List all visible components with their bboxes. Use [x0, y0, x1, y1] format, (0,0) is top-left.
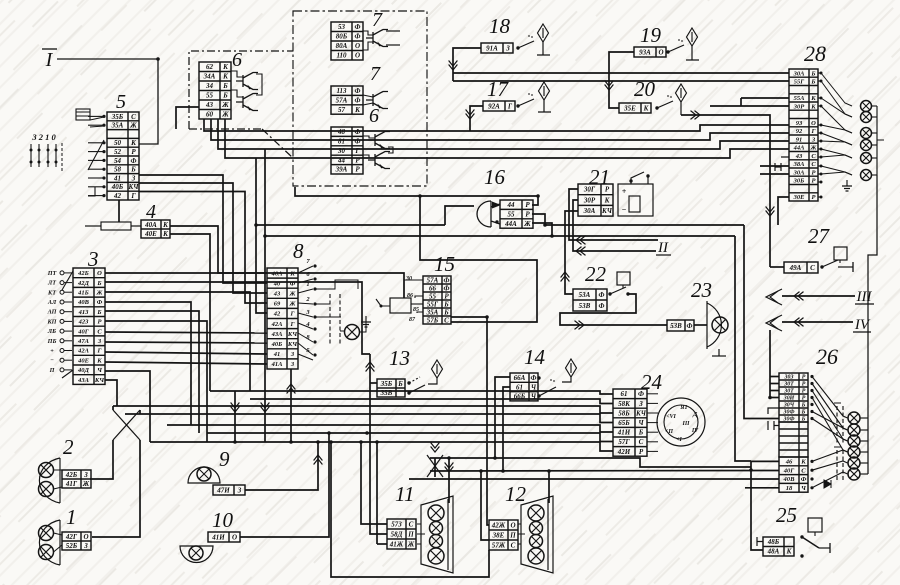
svg-text:12: 12	[505, 482, 527, 506]
long wire 91 to unit 28	[218, 119, 789, 149]
svg-text:42Г: 42Г	[65, 533, 78, 541]
svg-text:86: 86	[407, 293, 413, 299]
svg-text:Б: Б	[222, 92, 228, 100]
wire 3 row9 to switch 8	[105, 352, 267, 354]
svg-text:Б: Б	[222, 82, 228, 90]
svg-text:КЧ: КЧ	[601, 207, 613, 215]
twist symbol IV	[766, 315, 782, 331]
svg-text:К: К	[96, 357, 102, 364]
switch 25 icon	[808, 518, 822, 532]
lamp symbol of switch 19	[687, 28, 698, 46]
junction dot 20	[547, 469, 551, 473]
bus wire to 24 row 61	[210, 391, 613, 394]
lamp HL2 of panel 26	[848, 424, 860, 436]
svg-text:Ж: Ж	[289, 301, 297, 308]
wire to cluster 12 row3	[481, 471, 489, 540]
svg-text:24: 24	[641, 370, 663, 394]
lamp HL2 of panel 28	[861, 112, 872, 123]
lamp 9 bulb	[197, 467, 211, 481]
wire lamp 2 up	[90, 440, 113, 479]
arrow up on wire 13	[366, 362, 375, 372]
twist symbol III	[766, 289, 782, 305]
long wire 40В	[409, 478, 779, 480]
svg-text:35Е: 35Е	[623, 104, 636, 112]
junction dot 4	[749, 468, 753, 472]
svg-text:О: О	[97, 270, 102, 277]
svg-text:93: 93	[796, 120, 803, 127]
svg-text:III: III	[681, 421, 690, 427]
arrow harness II upper	[576, 236, 586, 245]
wire relay 15 output down	[451, 317, 489, 525]
svg-text:7: 7	[372, 9, 383, 31]
svg-text:О: О	[355, 42, 360, 50]
svg-text:30: 30	[405, 276, 412, 282]
svg-text:41И: 41И	[211, 533, 225, 541]
svg-text:АП: АП	[47, 309, 57, 316]
svg-text:С: С	[811, 161, 816, 168]
svg-text:8: 8	[293, 239, 304, 263]
junction dot 13	[365, 431, 369, 435]
svg-text:55Г: 55Г	[794, 79, 805, 86]
svg-text:69: 69	[274, 301, 281, 308]
wire 3 row11 down	[105, 371, 150, 442]
svg-text:П: П	[407, 530, 414, 538]
transistor VT1 of unit 6b	[368, 132, 390, 149]
svg-text:Ф: Ф	[97, 299, 103, 306]
svg-text:30Т: 30Т	[783, 389, 794, 395]
svg-text:61: 61	[516, 383, 523, 391]
lamp HL3 of panel 26	[848, 435, 860, 447]
svg-text:43: 43	[205, 101, 214, 109]
svg-text:˂VI: ˂VI	[666, 414, 676, 420]
svg-text:18: 18	[489, 14, 511, 38]
svg-text:35А: 35А	[426, 308, 439, 316]
wire panel 28 bottom exit	[778, 197, 789, 225]
svg-text:41Ж: 41Ж	[389, 540, 404, 548]
svg-text:40Б: 40Б	[111, 183, 124, 191]
svg-text:КЧ: КЧ	[287, 331, 298, 338]
cluster 11 lamp3	[430, 535, 443, 548]
svg-text:З: З	[83, 471, 88, 479]
connector mark left of unit 25	[757, 537, 763, 546]
svg-text:53В: 53В	[670, 322, 682, 330]
svg-text:С: С	[409, 520, 414, 528]
svg-text:55: 55	[508, 211, 516, 219]
svg-text:Ф: Ф	[355, 33, 361, 41]
cluster 12 housing	[521, 496, 553, 573]
switch 3 arm	[62, 271, 73, 290]
svg-text:44А: 44А	[793, 145, 806, 152]
svg-text:42И: 42И	[617, 448, 631, 456]
wire switch 14 row1 down	[495, 377, 510, 458]
fuse F1	[101, 222, 131, 230]
svg-text:66А: 66А	[514, 374, 526, 382]
svg-text:6: 6	[232, 49, 242, 71]
svg-text:С: С	[97, 328, 102, 335]
wire harness IV	[782, 321, 853, 323]
svg-text:7: 7	[370, 63, 381, 85]
regulator 6 boundary chain	[189, 51, 293, 129]
svg-text:66: 66	[429, 284, 437, 292]
svg-text:35А: 35А	[111, 122, 124, 130]
svg-text:Г: Г	[130, 192, 136, 200]
switch 14 stem	[562, 377, 571, 382]
socket 24 connector	[613, 389, 647, 456]
cluster 11 lamp2	[430, 522, 443, 535]
lamp HL3 of panel 28	[861, 128, 872, 139]
svg-text:40В: 40В	[77, 299, 90, 306]
svg-text:55Г: 55Г	[427, 300, 439, 308]
svg-text:10: 10	[212, 508, 234, 532]
svg-text:С: С	[810, 264, 815, 272]
wire drop B to panel 26	[735, 236, 751, 461]
junction dot 18	[493, 456, 497, 460]
svg-text:87: 87	[409, 317, 416, 323]
svg-text:26: 26	[816, 344, 838, 369]
svg-text:40Г: 40Г	[783, 467, 796, 474]
wire 3 row5 down	[105, 311, 199, 433]
svg-text:Ж: Ж	[289, 291, 297, 298]
bus wire to 24 row 42И	[150, 442, 613, 451]
svg-text:К: К	[800, 459, 806, 466]
svg-text:З: З	[505, 44, 510, 52]
junction dot 15	[375, 440, 379, 444]
headlamp 2 bulb leads	[54, 469, 63, 471]
wire switch 13 up arrow	[370, 354, 387, 534]
svg-text:60: 60	[206, 111, 214, 119]
svg-text:Ф: Ф	[531, 374, 537, 382]
svg-text:30З: 30З	[784, 375, 794, 381]
long wire B to the right	[265, 149, 735, 236]
svg-text:58К: 58К	[618, 400, 631, 408]
wire cluster 11 row3	[376, 442, 378, 544]
cluster 11 lamp1	[428, 505, 444, 521]
svg-text:Р: Р	[802, 382, 806, 388]
svg-text:55: 55	[206, 92, 214, 100]
lamp symbol of switch 18	[538, 24, 549, 42]
svg-text:Г: Г	[97, 348, 102, 355]
wire cross up left	[112, 406, 114, 410]
svg-text:Б: Б	[443, 300, 449, 308]
transistor VT1 of unit 6	[236, 73, 258, 90]
svg-text:КЧ: КЧ	[94, 377, 105, 384]
arrow harness II lower	[576, 247, 586, 256]
switch arms and lamp wiring of panel 28	[820, 72, 823, 75]
svg-text:Ф: Ф	[599, 302, 605, 310]
svg-text:З: З	[638, 400, 643, 408]
wire 3 row4 down	[105, 302, 191, 425]
wire lamp 10	[240, 433, 329, 537]
svg-text:13: 13	[389, 346, 410, 370]
svg-text:Б: Б	[443, 308, 449, 316]
svg-text:30Т: 30Т	[783, 382, 794, 388]
svg-text:О: О	[83, 533, 88, 541]
svg-text:41: 41	[273, 351, 281, 358]
wire up from switch 22	[565, 211, 578, 294]
svg-text:43: 43	[795, 153, 803, 160]
wire B down to bus	[264, 236, 266, 442]
regulator 6 boundary chain bottom	[189, 128, 262, 130]
fuse block 4 connector	[141, 220, 170, 238]
svg-text:Г: Г	[811, 128, 816, 135]
switch 13 connector	[377, 379, 405, 397]
junction dot 5	[263, 234, 267, 238]
svg-text:Р: Р	[444, 292, 449, 300]
svg-text:Ф: Ф	[355, 97, 361, 105]
long wire A right part	[545, 224, 744, 226]
svg-text:18: 18	[786, 485, 793, 492]
wire horn 16 lower	[532, 214, 545, 225]
horn 16 body	[477, 201, 500, 227]
svg-text:Ж: Ж	[810, 145, 818, 152]
svg-text:58: 58	[114, 166, 122, 174]
cluster 11 connector	[387, 519, 416, 549]
wires transistors unit 6	[231, 71, 243, 77]
wire lamp 9	[245, 442, 318, 490]
arrow on wire 20	[691, 111, 701, 120]
switch 25 connector	[763, 537, 794, 556]
svg-text:62: 62	[206, 63, 214, 71]
svg-text:Ф: Ф	[355, 138, 361, 146]
junction dot 19	[501, 469, 505, 473]
pilot lamp of switch 8	[345, 325, 360, 340]
junction dot 21	[447, 456, 451, 460]
switch 22 icon	[617, 272, 630, 285]
lamp HL5 of panel 26	[848, 457, 860, 469]
svg-text:42Б: 42Б	[65, 471, 78, 479]
svg-text:Б: Б	[810, 79, 815, 86]
svg-text:48: 48	[337, 128, 346, 136]
svg-text:53: 53	[338, 23, 346, 31]
wire 3 row10 to switch 8	[105, 362, 267, 364]
svg-text:К: К	[810, 103, 816, 110]
svg-text:+: +	[622, 187, 627, 196]
arrow into crossing	[431, 443, 440, 453]
svg-text:3 2 1 0: 3 2 1 0	[31, 132, 56, 142]
switch 27 connector	[784, 262, 818, 273]
wire horn 16 left feed	[445, 206, 474, 225]
wire 40Б from unit 5 to switch 8	[139, 183, 267, 293]
svg-text:Г: Г	[290, 311, 295, 318]
svg-text:43А: 43А	[77, 377, 90, 384]
svg-text:Г: Г	[290, 321, 295, 328]
svg-text:Ф: Ф	[687, 322, 693, 330]
svg-text:Р: Р	[605, 186, 610, 194]
lamp 9 connector	[213, 485, 245, 495]
switch 22 connector	[573, 289, 607, 311]
junction dot 16	[485, 315, 489, 319]
svg-text:˂I: ˂I	[676, 437, 682, 443]
svg-text:Ж: Ж	[129, 122, 137, 130]
wire stub unit 6 left	[176, 107, 199, 129]
lamp 9 housing	[188, 467, 220, 483]
svg-text:Ф: Ф	[355, 128, 361, 136]
svg-text:Б: Б	[96, 309, 101, 316]
svg-text:6: 6	[369, 105, 379, 127]
arrow into cluster 11	[445, 463, 454, 473]
lamp 10 housing	[180, 546, 213, 563]
svg-text:Р: Р	[639, 448, 644, 456]
junction dot 10	[289, 440, 293, 444]
bus wire to 24 row 57Г	[207, 433, 613, 442]
svg-text:Р: Р	[802, 375, 806, 381]
svg-text:61: 61	[621, 390, 628, 398]
svg-text:30Е: 30Е	[793, 194, 806, 201]
arrow on wire 18	[449, 61, 458, 71]
svg-text:Ж: Ж	[523, 220, 531, 228]
horn 16 connector	[500, 200, 533, 228]
svg-text:47А: 47А	[77, 338, 90, 345]
panel 28 connector	[789, 69, 818, 201]
junction dot 7	[768, 396, 772, 400]
svg-text:9: 9	[219, 447, 230, 471]
svg-text:Ж: Ж	[96, 290, 104, 297]
relay 15 pin wires	[404, 280, 423, 298]
svg-text:К: К	[810, 95, 816, 102]
svg-text:30И: 30И	[783, 396, 795, 402]
switch arms and lamp wiring of panel 26	[810, 375, 813, 378]
svg-text:41А: 41А	[271, 361, 284, 368]
bus wire to 24 row 58К	[250, 399, 613, 404]
svg-text:20: 20	[634, 77, 656, 101]
svg-text:−: −	[622, 205, 627, 214]
cluster 11 leads	[417, 523, 421, 525]
svg-text:III: III	[856, 289, 873, 305]
regulator block 6 connector	[199, 62, 231, 119]
stub row 4 of 26	[770, 397, 779, 399]
svg-text:Ф: Ф	[131, 157, 137, 165]
svg-text:52Б: 52Б	[66, 542, 78, 550]
svg-text:−: −	[50, 357, 54, 364]
arrow up wire 22	[561, 272, 570, 282]
svg-text:38А: 38А	[793, 161, 806, 168]
wire to cluster 11 housing	[448, 458, 450, 503]
svg-text:Б: Б	[130, 166, 136, 174]
switch 18 stem	[542, 42, 544, 55]
svg-text:Д: Д	[692, 412, 698, 418]
svg-text:57А: 57А	[336, 97, 348, 105]
wire under generator frame	[295, 187, 538, 196]
junction dot 8	[316, 440, 320, 444]
crossing X center	[427, 455, 443, 477]
svg-text:54: 54	[114, 157, 122, 165]
svg-text:Ф: Ф	[355, 23, 361, 31]
svg-text:49А: 49А	[789, 264, 802, 272]
svg-text:27: 27	[808, 224, 831, 248]
switch 18 contact	[516, 46, 519, 49]
arrow drop a	[231, 403, 240, 413]
diode VD of panel 26	[824, 480, 831, 488]
vertical stub row 55А-30Р	[740, 98, 742, 106]
switch 13 stem	[428, 378, 437, 384]
contact fan of switch 8	[298, 266, 313, 273]
lamp HL6 of panel 26	[848, 468, 860, 480]
headlamp 2 connector	[62, 470, 91, 488]
svg-text:Р: Р	[525, 201, 530, 209]
switch 8 lamp lead	[360, 322, 367, 332]
svg-text:П: П	[49, 367, 55, 374]
transistor VT2 of unit 6	[236, 94, 258, 111]
svg-text:30А: 30А	[583, 207, 596, 215]
lamp HL1 of panel 26	[848, 412, 860, 424]
svg-text:110: 110	[336, 52, 347, 60]
svg-text:40Б: 40Б	[271, 341, 283, 348]
svg-text:42Б: 42Б	[77, 270, 89, 277]
switch 22 contact	[608, 292, 611, 295]
svg-text:41Б: 41Б	[77, 290, 89, 297]
svg-text:41И: 41И	[617, 429, 631, 437]
svg-text:57Ж: 57Ж	[492, 541, 506, 549]
svg-text:53В: 53В	[579, 302, 591, 310]
wire under cluster 11 to cluster 12	[331, 442, 489, 577]
svg-text:АЛ: АЛ	[47, 299, 57, 306]
junction dot 23	[156, 57, 160, 61]
battery 21 body	[618, 184, 653, 216]
arrow drop b	[261, 403, 270, 413]
svg-text:П: П	[509, 531, 516, 539]
svg-text:35В: 35В	[380, 389, 393, 397]
svg-text:З: З	[83, 542, 88, 550]
ground of panel 28	[842, 180, 852, 191]
junction dot 9	[327, 431, 331, 435]
svg-text:Р: Р	[355, 166, 360, 174]
svg-text:I: I	[45, 49, 54, 71]
svg-text:З: З	[237, 486, 242, 494]
arrow below switch 8	[287, 384, 296, 394]
svg-text:42: 42	[113, 192, 122, 200]
wire switch 14 row2 down	[503, 387, 510, 471]
svg-text:2: 2	[63, 435, 74, 459]
svg-text:92А: 92А	[488, 102, 500, 110]
relay coil icon of unit 5	[76, 109, 90, 120]
svg-text:Р: Р	[802, 389, 806, 395]
svg-text:КЧ: КЧ	[128, 183, 140, 191]
cluster 12 lamp3	[530, 535, 543, 548]
bus wire to 24 row 41И	[167, 425, 613, 432]
svg-text:30Г: 30Г	[583, 186, 596, 194]
switch 18 connector	[481, 43, 513, 53]
svg-text:57А: 57А	[427, 276, 439, 284]
junction dot 14	[329, 440, 333, 444]
svg-text:Ф: Ф	[599, 291, 605, 299]
wire 3 row8 to switch 8	[105, 342, 267, 343]
svg-text:35Б: 35Б	[111, 113, 124, 121]
svg-text:+: +	[50, 347, 54, 354]
wire below switch 8 down	[290, 369, 292, 442]
svg-text:Ф: Ф	[444, 276, 450, 284]
svg-text:40Д: 40Д	[77, 367, 90, 374]
connector block 5	[107, 112, 139, 200]
wire from harness I to unit 5	[57, 59, 158, 144]
long wire 92 to unit 28	[211, 119, 789, 140]
switch 13 contacts	[407, 381, 410, 384]
switch 19 stem	[691, 46, 693, 60]
svg-text:Ч: Ч	[531, 383, 537, 391]
stubs into panel 26 top rows	[770, 376, 779, 378]
wire 18 to panel 28 row 30А	[453, 72, 789, 74]
wire to relay 28 row 30Р	[710, 105, 789, 107]
switch 19 contact	[666, 50, 669, 53]
arrow on wire to unit 27	[766, 207, 775, 217]
switch 27 contact	[820, 265, 823, 268]
svg-text:35Б: 35Б	[380, 380, 393, 388]
wire drop A to panel 26	[744, 225, 779, 419]
battery 21 switch	[629, 179, 632, 182]
svg-text:53А: 53А	[579, 291, 591, 299]
wafer bars upper of panel 26	[836, 406, 838, 444]
socket 24 outer circle	[657, 398, 705, 446]
connector mark left of panel 26	[768, 408, 779, 430]
